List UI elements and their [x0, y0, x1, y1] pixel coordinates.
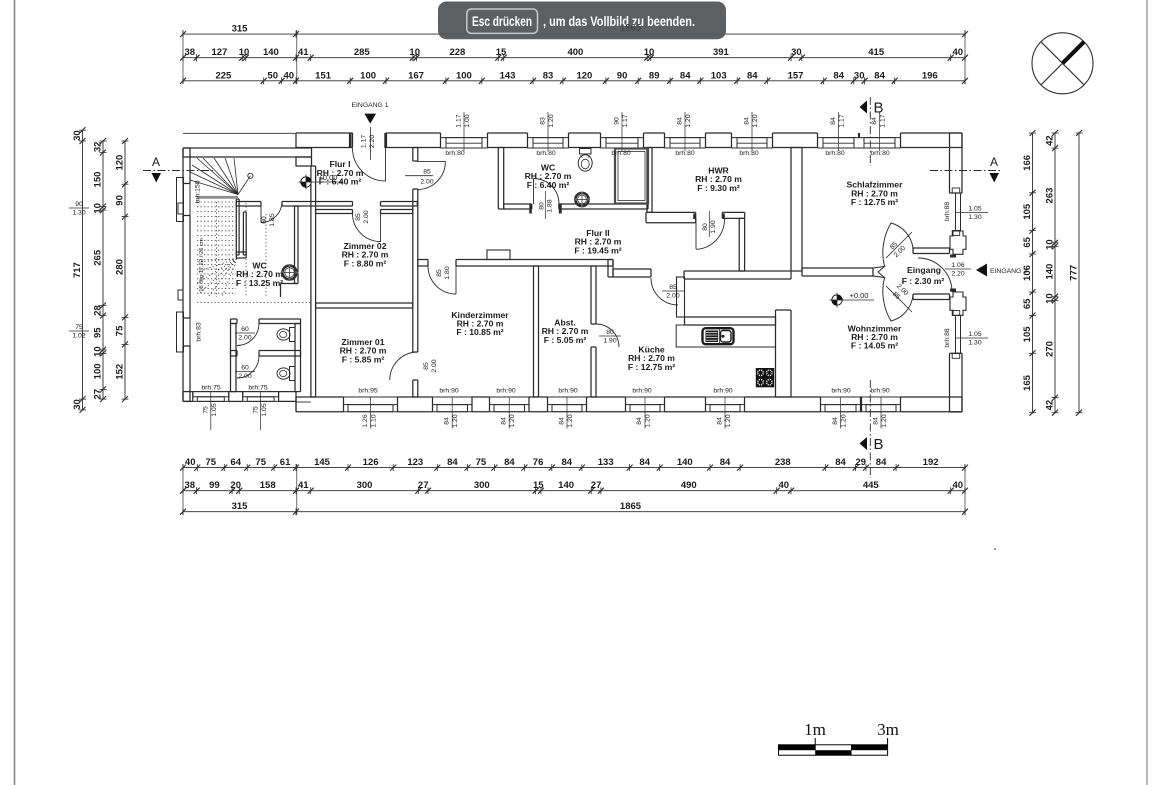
svg-text:1.90: 1.90	[710, 220, 717, 233]
svg-text:brh:75: brh:75	[248, 385, 267, 392]
svg-text:brh:90: brh:90	[632, 388, 651, 395]
svg-text:228: 228	[449, 47, 465, 58]
svg-text:150: 150	[93, 172, 104, 188]
svg-text:10: 10	[1045, 293, 1056, 304]
svg-text:64: 64	[230, 457, 241, 468]
svg-text:1m: 1m	[804, 720, 826, 739]
svg-text:315: 315	[232, 501, 249, 512]
svg-text:76: 76	[533, 457, 544, 468]
svg-text:brh:80: brh:80	[870, 150, 889, 157]
svg-text:F : 13.25 m²: F : 13.25 m²	[236, 278, 283, 288]
svg-text:84: 84	[830, 117, 837, 125]
svg-text:brh:90: brh:90	[831, 388, 850, 395]
svg-text:10: 10	[644, 47, 655, 58]
svg-text:38: 38	[185, 47, 196, 58]
svg-text:10: 10	[1045, 239, 1056, 250]
svg-text:40: 40	[953, 47, 964, 58]
svg-text:84: 84	[562, 457, 573, 468]
svg-text:85: 85	[355, 213, 362, 221]
svg-text:F : 14.05 m²: F : 14.05 m²	[851, 341, 898, 351]
svg-text:1.20: 1.20	[725, 414, 732, 427]
svg-text:83: 83	[540, 117, 547, 125]
svg-text:1.17: 1.17	[839, 114, 846, 127]
svg-text:84: 84	[677, 117, 684, 125]
svg-text:1.85: 1.85	[269, 213, 276, 226]
svg-text:42: 42	[1045, 400, 1056, 411]
svg-text:brh:90: brh:90	[870, 388, 889, 395]
svg-text:75: 75	[255, 457, 266, 468]
svg-text:1.30: 1.30	[968, 340, 981, 347]
svg-text:167: 167	[408, 70, 424, 81]
svg-text:3m: 3m	[877, 720, 899, 739]
svg-text:27: 27	[93, 389, 104, 400]
svg-text:84: 84	[444, 417, 451, 425]
svg-text:75: 75	[115, 325, 126, 336]
svg-text:F : 5.85 m²: F : 5.85 m²	[342, 354, 385, 364]
svg-text:225: 225	[215, 70, 232, 81]
svg-text:85: 85	[423, 169, 431, 176]
svg-text:32: 32	[93, 142, 104, 153]
svg-text:20: 20	[230, 480, 241, 491]
svg-text:126: 126	[363, 457, 379, 468]
svg-text:95: 95	[93, 327, 104, 338]
svg-text:2.00: 2.00	[238, 373, 251, 380]
svg-text:F : 2.30 m²: F : 2.30 m²	[902, 276, 945, 286]
svg-text:80: 80	[702, 223, 709, 231]
svg-text:100: 100	[93, 363, 104, 379]
svg-text:445: 445	[863, 480, 880, 491]
svg-text:1.20: 1.20	[548, 114, 555, 127]
svg-text:10: 10	[93, 203, 104, 214]
svg-text:1.05: 1.05	[968, 331, 981, 338]
svg-text:F : 6.40 m²: F : 6.40 m²	[319, 177, 362, 187]
svg-text:B: B	[874, 100, 884, 117]
svg-text:15: 15	[496, 47, 507, 58]
svg-text:1.10: 1.10	[371, 414, 378, 427]
svg-text:75: 75	[252, 406, 259, 414]
svg-text:brh:88: brh:88	[944, 328, 951, 347]
svg-text:1865: 1865	[620, 501, 642, 512]
svg-text:30: 30	[854, 70, 865, 81]
svg-text:1.17: 1.17	[622, 114, 629, 127]
svg-text:315: 315	[232, 24, 249, 35]
svg-text:1.20: 1.20	[752, 114, 759, 127]
svg-text:brh:80: brh:80	[536, 150, 555, 157]
svg-text:145: 145	[314, 457, 331, 468]
svg-text:brh:95: brh:95	[358, 388, 377, 395]
svg-text:84: 84	[833, 70, 844, 81]
svg-text:41: 41	[298, 480, 309, 491]
svg-text:100: 100	[360, 70, 376, 81]
svg-text:84: 84	[874, 70, 885, 81]
svg-text:brh:90: brh:90	[439, 388, 458, 395]
svg-text:65: 65	[1022, 236, 1033, 247]
svg-text:29: 29	[856, 457, 867, 468]
svg-text:F : 9.30 m²: F : 9.30 m²	[697, 183, 740, 193]
svg-text:1.02: 1.02	[72, 333, 85, 340]
svg-text:2.00: 2.00	[363, 210, 370, 223]
svg-text:18 Stg 17,22 / 26 cm: 18 Stg 17,22 / 26 cm	[199, 238, 205, 292]
svg-text:415: 415	[868, 47, 885, 58]
svg-text:2.00: 2.00	[431, 359, 438, 372]
svg-text:285: 285	[354, 47, 371, 58]
svg-text:A: A	[152, 155, 160, 169]
svg-text:84: 84	[559, 417, 566, 425]
svg-text:83: 83	[543, 70, 554, 81]
svg-text:1.05: 1.05	[968, 206, 981, 213]
svg-text:84: 84	[832, 417, 839, 425]
svg-text:140: 140	[558, 480, 574, 491]
svg-text:196: 196	[922, 70, 938, 81]
svg-text:84: 84	[871, 117, 878, 125]
svg-text:65: 65	[1022, 298, 1033, 309]
svg-text:157: 157	[788, 70, 804, 81]
svg-text:133: 133	[598, 457, 614, 468]
svg-text:85: 85	[436, 269, 443, 277]
svg-text:85: 85	[423, 362, 430, 370]
svg-text:140: 140	[1045, 264, 1056, 280]
svg-text:1.20: 1.20	[685, 114, 692, 127]
svg-text:105: 105	[1022, 203, 1033, 220]
svg-text:1.20: 1.20	[567, 414, 574, 427]
svg-text:40: 40	[284, 70, 295, 81]
svg-text:84: 84	[744, 117, 751, 125]
svg-text:1865: 1865	[620, 23, 642, 34]
svg-text:490: 490	[681, 480, 697, 491]
svg-text:Esc drücken: Esc drücken	[472, 14, 532, 29]
svg-text:60: 60	[241, 365, 249, 372]
svg-text:300: 300	[357, 480, 373, 491]
svg-text:brh:90: brh:90	[713, 388, 732, 395]
svg-text:1.88: 1.88	[547, 199, 554, 212]
svg-text:42: 42	[1045, 135, 1056, 146]
svg-text:158: 158	[260, 480, 276, 491]
svg-text:75: 75	[203, 406, 210, 414]
svg-text:1.05: 1.05	[261, 403, 268, 416]
svg-text:61: 61	[280, 457, 291, 468]
svg-text:15: 15	[533, 480, 544, 491]
svg-text:85: 85	[669, 284, 677, 291]
svg-text:192: 192	[923, 457, 939, 468]
svg-text:151: 151	[315, 70, 332, 81]
svg-text:75: 75	[75, 324, 83, 331]
svg-text:F : 8.80 m²: F : 8.80 m²	[344, 258, 387, 268]
svg-text:1.80: 1.80	[444, 266, 451, 279]
svg-text:41: 41	[298, 47, 309, 58]
svg-text:brh:80: brh:80	[739, 150, 758, 157]
svg-text:270: 270	[1045, 341, 1056, 357]
svg-text:1.17: 1.17	[361, 135, 368, 148]
svg-text:84: 84	[720, 457, 731, 468]
svg-text:90: 90	[614, 117, 621, 125]
svg-text:1.20: 1.20	[645, 414, 652, 427]
svg-text:1.20: 1.20	[509, 414, 516, 427]
svg-text:brh:80: brh:80	[825, 150, 844, 157]
svg-text:120: 120	[576, 70, 592, 81]
svg-text:40: 40	[779, 480, 790, 491]
svg-text:F : 5.05 m²: F : 5.05 m²	[544, 335, 587, 345]
svg-text:105: 105	[1022, 326, 1033, 343]
svg-text:28: 28	[93, 305, 104, 316]
svg-text:143: 143	[500, 70, 516, 81]
svg-text:90: 90	[115, 195, 126, 206]
svg-text:30: 30	[72, 399, 83, 410]
svg-text:84: 84	[504, 457, 515, 468]
svg-text:80: 80	[606, 329, 614, 336]
svg-text:10: 10	[409, 47, 420, 58]
svg-text:265: 265	[93, 249, 104, 266]
svg-text:30: 30	[791, 47, 802, 58]
svg-text:brh:90: brh:90	[496, 388, 515, 395]
svg-text:120: 120	[115, 155, 126, 171]
svg-text:brh:80: brh:80	[675, 150, 694, 157]
svg-text:2.00: 2.00	[666, 293, 679, 300]
svg-text:75: 75	[476, 457, 487, 468]
svg-text:60: 60	[261, 216, 268, 224]
svg-text:123: 123	[407, 457, 423, 468]
svg-text:1.20: 1.20	[452, 414, 459, 427]
svg-text:40: 40	[953, 480, 964, 491]
svg-text:38: 38	[185, 480, 196, 491]
svg-text:127: 127	[211, 47, 227, 58]
svg-text:brh:150: brh:150	[195, 180, 202, 203]
svg-text:10: 10	[93, 346, 104, 357]
svg-text:391: 391	[713, 47, 730, 58]
svg-text:84: 84	[680, 70, 691, 81]
svg-text:F : 12.75 m²: F : 12.75 m²	[628, 362, 675, 372]
svg-text:84: 84	[501, 417, 508, 425]
svg-text:90: 90	[617, 70, 628, 81]
svg-text:75: 75	[206, 457, 217, 468]
svg-text:84: 84	[636, 417, 643, 425]
svg-text:F : 12.75 m²: F : 12.75 m²	[851, 197, 898, 207]
svg-text:280: 280	[115, 259, 126, 275]
svg-text:400: 400	[567, 47, 583, 58]
svg-text:F : 10.85 m²: F : 10.85 m²	[456, 327, 503, 337]
svg-text:brh:83: brh:83	[196, 322, 203, 341]
svg-text:165: 165	[1022, 374, 1033, 391]
svg-text:EINGANG 1: EINGANG 1	[351, 102, 388, 109]
svg-text:1.26: 1.26	[362, 414, 369, 427]
svg-text:84: 84	[447, 457, 458, 468]
svg-text:1.17: 1.17	[456, 114, 463, 127]
svg-text:B: B	[874, 436, 884, 453]
svg-text:238: 238	[775, 457, 791, 468]
svg-text:10: 10	[239, 47, 250, 58]
svg-text:1.20: 1.20	[881, 414, 888, 427]
svg-text:27: 27	[591, 480, 602, 491]
svg-text:brh:90: brh:90	[558, 388, 577, 395]
svg-text:300: 300	[474, 480, 490, 491]
svg-text:1.20: 1.20	[841, 414, 848, 427]
svg-text:A: A	[990, 155, 998, 169]
svg-text:166: 166	[1022, 155, 1033, 171]
svg-text:2.00: 2.00	[420, 179, 433, 186]
svg-text:60: 60	[241, 326, 249, 333]
svg-text:brh:88: brh:88	[944, 202, 951, 221]
svg-text:84: 84	[873, 417, 880, 425]
svg-text:84: 84	[835, 457, 846, 468]
svg-text:140: 140	[263, 47, 279, 58]
svg-text:777: 777	[1069, 265, 1080, 281]
svg-text:90: 90	[75, 201, 83, 208]
svg-text:99: 99	[209, 480, 220, 491]
svg-text:140: 140	[677, 457, 693, 468]
svg-text:1.30: 1.30	[72, 210, 85, 217]
svg-text:1.00: 1.00	[464, 114, 471, 127]
svg-text:1.05: 1.05	[211, 403, 218, 416]
svg-text:50: 50	[267, 70, 278, 81]
svg-text:103: 103	[711, 70, 727, 81]
svg-text:+0.00: +0.00	[850, 291, 869, 300]
svg-text:2.20: 2.20	[951, 271, 964, 278]
svg-text:EINGANG 2: EINGANG 2	[990, 268, 1027, 275]
svg-text:Eingang: Eingang	[907, 265, 941, 275]
svg-text:100: 100	[456, 70, 472, 81]
svg-text:F : 6.40 m²: F : 6.40 m²	[527, 180, 570, 190]
svg-text:80: 80	[538, 202, 545, 210]
svg-text:2.00: 2.00	[238, 335, 251, 342]
svg-text:F : 19.45 m²: F : 19.45 m²	[574, 245, 621, 255]
svg-text:27: 27	[418, 480, 429, 491]
svg-text:84: 84	[876, 457, 887, 468]
svg-text:152: 152	[115, 364, 126, 380]
svg-text:brh:75: brh:75	[201, 385, 220, 392]
svg-text:40: 40	[185, 457, 196, 468]
svg-text:brh:80: brh:80	[611, 150, 630, 157]
svg-text:84: 84	[717, 417, 724, 425]
svg-text:brh:80: brh:80	[445, 150, 464, 157]
svg-text:263: 263	[1045, 188, 1056, 204]
svg-text:1.30: 1.30	[968, 214, 981, 221]
svg-text:84: 84	[747, 70, 758, 81]
svg-text:1.90: 1.90	[603, 338, 616, 345]
svg-text:1.06: 1.06	[951, 262, 964, 269]
svg-text:89: 89	[649, 70, 660, 81]
svg-text:84: 84	[639, 457, 650, 468]
svg-text:717: 717	[72, 262, 83, 278]
svg-text:30: 30	[72, 130, 83, 141]
